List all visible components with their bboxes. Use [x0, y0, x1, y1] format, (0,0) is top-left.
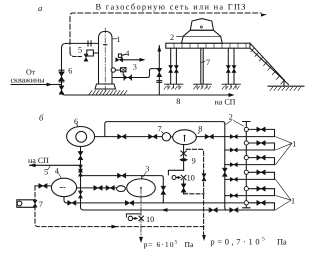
svg-text:2: 2	[170, 33, 174, 42]
svg-text:9: 9	[192, 157, 196, 166]
svg-text:10: 10	[146, 215, 154, 224]
svg-text:4: 4	[55, 167, 59, 176]
svg-text:В газосборную сеть или на ГПЗ: В газосборную сеть или на ГПЗ	[96, 3, 246, 12]
svg-text:1: 1	[291, 197, 295, 206]
svg-text:7: 7	[206, 58, 210, 67]
svg-text:5: 5	[262, 237, 265, 243]
svg-text:скважины: скважины	[11, 76, 46, 85]
svg-text:8: 8	[176, 97, 180, 106]
svg-text:7: 7	[39, 200, 43, 209]
svg-text:1: 1	[292, 139, 296, 148]
svg-text:3: 3	[145, 164, 149, 173]
svg-text:10: 10	[187, 173, 195, 182]
svg-text:7: 7	[158, 124, 162, 133]
svg-text:Па: Па	[185, 240, 194, 249]
svg-text:на СП: на СП	[215, 98, 236, 107]
svg-text:р=0,7·10: р=0,7·10	[211, 238, 260, 247]
svg-text:б: б	[39, 113, 44, 123]
svg-text:4: 4	[125, 49, 129, 58]
svg-text:6: 6	[74, 117, 78, 126]
svg-text:8: 8	[198, 124, 202, 133]
svg-text:р= 6·10: р= 6·10	[144, 240, 174, 249]
svg-text:5: 5	[78, 46, 82, 55]
svg-text:1: 1	[117, 35, 121, 44]
svg-text:Па: Па	[277, 238, 287, 247]
svg-text:5: 5	[175, 240, 178, 246]
svg-text:6: 6	[68, 67, 72, 76]
svg-text:5: 5	[44, 167, 48, 176]
svg-text:а: а	[38, 3, 42, 13]
svg-text:на СП: на СП	[28, 156, 49, 165]
svg-text:3: 3	[133, 62, 137, 71]
svg-text:2: 2	[229, 113, 233, 122]
